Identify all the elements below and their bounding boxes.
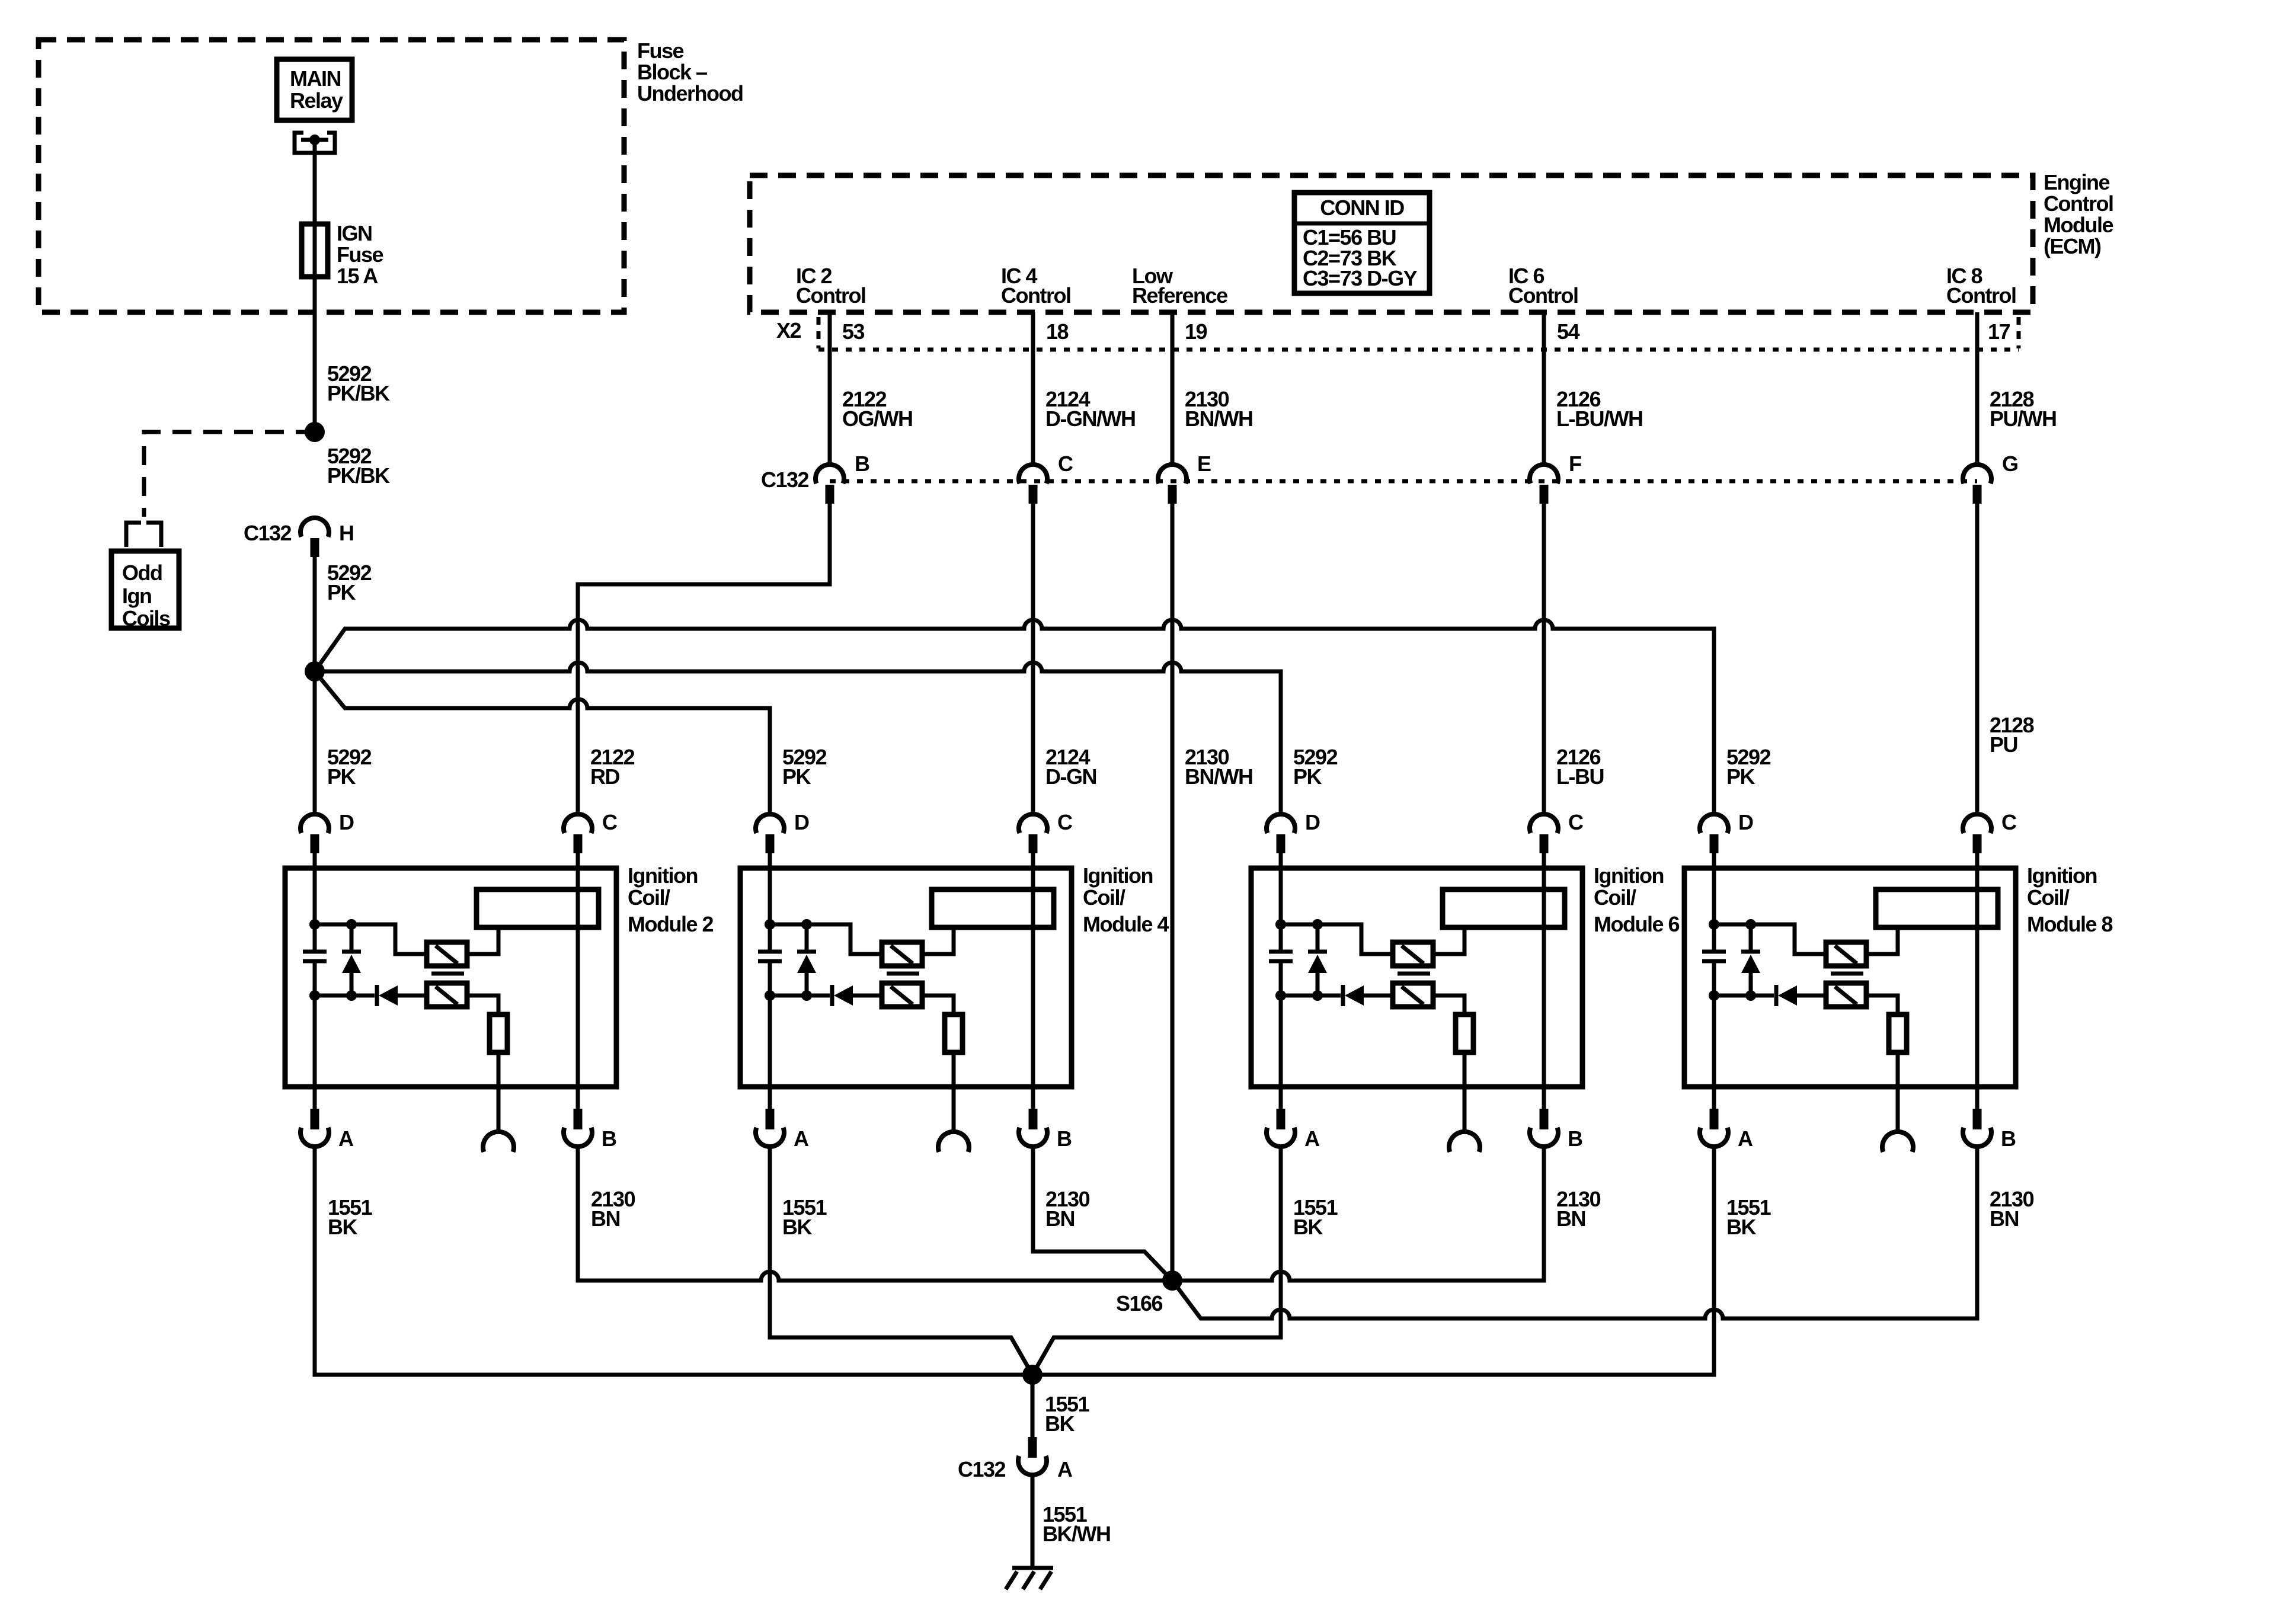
- wire 5292 PK bus to module 4 pin D (bottom branch): [315, 671, 770, 814]
- relay K MAIN Relay box: [277, 59, 352, 120]
- module 4 core: [887, 972, 919, 976]
- wire 5292 PK bus to module 6 pin D (middle branch): [315, 662, 1281, 814]
- wire 1551 BK/WH C132 A to ground: [1031, 1475, 1035, 1567]
- svg-text:Fuse: Fuse: [637, 39, 684, 63]
- connector C132 pin E: [1158, 452, 1211, 504]
- module 8 wire to primary winding: [1714, 924, 1826, 954]
- wire 5292 PK to module 2 pin D: [313, 671, 317, 814]
- module 4 primary winding: [882, 942, 922, 966]
- svg-text:Module 4: Module 4: [1083, 912, 1169, 936]
- module 4 diode: [770, 985, 882, 1006]
- svg-text:Module 8: Module 8: [2027, 912, 2112, 936]
- wire 1551 BK splice to C132 A: [1031, 1375, 1035, 1437]
- svg-text:Coil/: Coil/: [628, 885, 670, 910]
- svg-text:D: D: [794, 810, 809, 834]
- wire label 2130 BN (module 4 B): [1045, 1187, 1090, 1231]
- svg-text:Ignition: Ignition: [2027, 863, 2097, 888]
- module 6 primary winding: [1393, 942, 1433, 966]
- svg-text:BK: BK: [782, 1215, 812, 1239]
- wire C132 E low reference down to splice S166: [1171, 504, 1175, 1281]
- svg-text:C: C: [1568, 810, 1584, 834]
- ignition coil/module 6 label: [1594, 863, 1679, 936]
- svg-text:BN: BN: [1990, 1206, 2019, 1231]
- wire IC8 control (2128) ECM to C132 G: [1975, 312, 1980, 465]
- odd ign coils connector bracket: [126, 523, 161, 547]
- module 8 core: [1831, 972, 1863, 976]
- module 8 capacitor: [1702, 952, 1726, 961]
- connector C132 pin A: [958, 1437, 1073, 1481]
- module 8 internal wire pin D to pin A: [1712, 853, 1716, 950]
- module 6 secondary winding: [1393, 983, 1433, 1007]
- module 6 internal wire pin D to pin A: [1279, 853, 1283, 950]
- ground G107 symbol: [1006, 1568, 1053, 1589]
- wire C132 B to module 2 pin C (2122 RD, jog): [578, 504, 830, 814]
- wire label 1551 BK (module 2 A): [328, 1195, 373, 1239]
- module 6 wire winding to coil block: [1433, 927, 1464, 954]
- wire label 5292 PK/BK (below splice): [327, 444, 390, 488]
- module 8 internal wire pin C to pin B: [1975, 853, 1980, 1109]
- ECM label: [2044, 170, 2113, 258]
- svg-text:15 A: 15 A: [337, 264, 378, 288]
- svg-text:H: H: [339, 521, 354, 545]
- module 8 pin D connector: [1700, 810, 1753, 853]
- svg-text:C: C: [1058, 452, 1073, 476]
- wire label 2130 BN/WH: [1185, 387, 1252, 431]
- module 8 wire winding to coil block: [1866, 927, 1898, 954]
- svg-text:L-BU/WH: L-BU/WH: [1556, 406, 1642, 431]
- module 4 wire winding to resistor: [922, 996, 954, 1014]
- wire C132 F to module 6 pin C (2126 L-BU): [1542, 504, 1546, 814]
- wire C132 C to module 4 pin C (2124 D-GN): [1031, 504, 1035, 814]
- wire label 2122 OG/WH: [842, 387, 912, 431]
- svg-text:BK: BK: [328, 1215, 357, 1239]
- svg-text:OG/WH: OG/WH: [842, 406, 912, 431]
- wire 2130 BN module 4 B to S166: [1033, 1147, 1172, 1281]
- svg-text:Fuse: Fuse: [337, 242, 383, 267]
- svg-text:Odd: Odd: [122, 561, 162, 585]
- svg-text:PK: PK: [1726, 764, 1755, 789]
- ECM label Low Reference: [1132, 264, 1227, 308]
- svg-text:Control: Control: [2044, 191, 2113, 216]
- module 8 secondary winding: [1826, 983, 1866, 1007]
- module 6 resistor: [1456, 1014, 1473, 1052]
- ignition coil/module 4 label: [1083, 863, 1169, 936]
- svg-text:C132: C132: [958, 1457, 1006, 1481]
- svg-text:D: D: [1305, 810, 1320, 834]
- svg-text:BK: BK: [1293, 1215, 1323, 1239]
- ECM label IC 6 Control: [1508, 264, 1578, 308]
- X2 connector row of ECM: [776, 317, 2019, 350]
- module 2 node dots: [309, 919, 357, 1001]
- svg-text:18: 18: [1046, 319, 1069, 344]
- wire label 5292 PK (module 6 D): [1293, 745, 1338, 789]
- wire label 2130 BN (module 8 B): [1990, 1187, 2034, 1231]
- module 6 wire winding to resistor: [1433, 996, 1464, 1014]
- wire label 5292 PK (module 4 D): [782, 745, 827, 789]
- module 4 wire winding to coil block: [922, 927, 954, 954]
- module 2 resistor: [490, 1014, 507, 1052]
- module 8 pin C connector: [1963, 810, 2017, 853]
- splice node 5292 PK bus junction: [305, 661, 325, 681]
- svg-text:A: A: [1738, 1126, 1753, 1151]
- connector C132 pin G: [1963, 452, 2018, 504]
- svg-text:Block –: Block –: [637, 60, 707, 84]
- svg-text:CONN ID: CONN ID: [1320, 196, 1404, 220]
- splice node (5292 junction to odd ign coils): [305, 422, 325, 442]
- module 8 wire winding to resistor: [1866, 996, 1898, 1014]
- wire 1551 BK module 4 A to ground splice: [770, 1147, 1032, 1375]
- wire 1551 BK module 6 A to ground splice: [1032, 1147, 1281, 1375]
- fuse F IGN Fuse 15 A: [302, 224, 328, 277]
- svg-text:S166: S166: [1116, 1291, 1163, 1315]
- svg-text:D: D: [1738, 810, 1753, 834]
- module 2 pin D connector: [300, 810, 354, 853]
- module 6 coil block: [1443, 889, 1565, 927]
- module 2 wire winding to coil block: [467, 927, 498, 954]
- ECM label IC 4 Control: [1001, 264, 1070, 308]
- svg-text:BN: BN: [1556, 1206, 1585, 1231]
- connector C132 pin C: [1019, 452, 1073, 504]
- module 4 spark plug connector: [938, 1132, 969, 1152]
- svg-text:Module 6: Module 6: [1594, 912, 1679, 936]
- wire label 2128 PU (module 8 C): [1990, 713, 2034, 757]
- module 4 secondary winding: [882, 983, 922, 1007]
- wire C132 G to module 8 pin C (2128 PU): [1975, 504, 1980, 814]
- svg-text:Coil/: Coil/: [2027, 885, 2070, 910]
- wire label 2128 PU/WH: [1990, 387, 2057, 431]
- svg-text:PU/WH: PU/WH: [1990, 406, 2057, 431]
- module 2 spark plug connector: [483, 1132, 514, 1152]
- module 2 wire to primary winding: [315, 924, 427, 954]
- ignition coil/module 6: [1251, 868, 1582, 1087]
- module 2 spark plug output wire: [497, 1052, 501, 1132]
- svg-text:D: D: [339, 810, 354, 834]
- ignition coil/module 2: [285, 868, 616, 1087]
- wire label 2130 BN (module 6 B): [1556, 1187, 1601, 1231]
- module 8 zener diode: [1741, 924, 1760, 996]
- module 6 wire to primary winding: [1281, 924, 1393, 954]
- module 4 internal wire pin D to pin A: [768, 853, 772, 950]
- module 4 pin C connector: [1019, 810, 1073, 853]
- svg-text:54: 54: [1557, 319, 1580, 344]
- svg-text:Ignition: Ignition: [1083, 863, 1153, 888]
- wire label 1551 BK (to C132 A): [1045, 1392, 1090, 1436]
- module 4 node dots: [765, 919, 812, 1001]
- svg-text:F: F: [1569, 452, 1581, 476]
- module 6 spark plug connector: [1449, 1132, 1480, 1152]
- svg-text:B: B: [1057, 1126, 1072, 1151]
- wire label 5292 PK (below C132 H): [327, 561, 372, 604]
- svg-text:A: A: [794, 1126, 809, 1151]
- svg-text:53: 53: [842, 319, 865, 344]
- wire 2130 BN S166 to module 8 B: [1172, 1147, 1977, 1318]
- svg-text:C3=73 D-GY: C3=73 D-GY: [1303, 266, 1418, 290]
- svg-text:19: 19: [1185, 319, 1207, 344]
- svg-text:PK: PK: [782, 764, 811, 789]
- module 4 zener diode: [797, 924, 816, 996]
- svg-text:D-GN: D-GN: [1045, 764, 1096, 789]
- svg-text:Control: Control: [1508, 283, 1578, 308]
- svg-text:PK/BK: PK/BK: [327, 463, 390, 488]
- svg-text:BK: BK: [1045, 1411, 1075, 1436]
- module 4 pin D connector: [756, 810, 809, 853]
- ignition coil/module 8: [1684, 868, 2016, 1087]
- svg-text:BN/WH: BN/WH: [1185, 406, 1252, 431]
- svg-text:BN: BN: [1045, 1206, 1075, 1231]
- wire label 1551 BK (module 4 A): [782, 1195, 827, 1239]
- splice S166: [1116, 1270, 1182, 1315]
- svg-text:L-BU: L-BU: [1556, 764, 1604, 789]
- connector C132 pin F: [1530, 452, 1581, 504]
- module 6 diode: [1281, 985, 1393, 1006]
- svg-text:G: G: [2002, 452, 2018, 476]
- svg-text:D-GN/WH: D-GN/WH: [1045, 406, 1135, 431]
- svg-text:E: E: [1197, 452, 1211, 476]
- svg-text:Ignition: Ignition: [1594, 863, 1664, 888]
- module 8 resistor: [1889, 1014, 1907, 1052]
- svg-text:B: B: [1568, 1126, 1582, 1151]
- svg-text:Module 2: Module 2: [628, 912, 713, 936]
- svg-text:A: A: [338, 1126, 354, 1151]
- wire IC6 control (2126) ECM to C132 F: [1542, 312, 1546, 465]
- module 8 node dots: [1709, 919, 1756, 1001]
- svg-text:B: B: [602, 1126, 616, 1151]
- module 4 pin B connector: [1019, 1109, 1072, 1151]
- svg-text:PK: PK: [327, 764, 356, 789]
- fuse block label: [637, 39, 743, 105]
- svg-text:BN/WH: BN/WH: [1185, 764, 1252, 789]
- module 2 wire winding to resistor: [467, 996, 498, 1014]
- module 6 zener diode: [1308, 924, 1327, 996]
- module 2 primary winding: [427, 942, 467, 966]
- module 2 pin A connector: [300, 1109, 354, 1151]
- svg-text:(ECM): (ECM): [2044, 234, 2101, 258]
- module 2 diode: [315, 985, 427, 1006]
- CONN ID table: [1294, 193, 1430, 293]
- module 2 pin C connector: [564, 810, 618, 853]
- module 4 capacitor: [758, 952, 782, 961]
- wire 1551 BK ground bus module 2 A to module 8 A: [315, 1147, 1714, 1375]
- module 4 internal wire pin C to pin B: [1031, 853, 1035, 1109]
- module 8 pin B connector: [1963, 1109, 2016, 1151]
- ignition coil/module 2 label: [628, 863, 713, 936]
- ignition coil/module 4: [740, 868, 1072, 1087]
- wire label 5292 PK/BK (above splice): [327, 361, 390, 405]
- wire 2130 BN module 2 B to S166 to module 6 B: [578, 1147, 1544, 1281]
- module 2 coil block: [477, 889, 599, 927]
- ECM label IC 8 Control: [1946, 264, 2016, 308]
- svg-text:Reference: Reference: [1132, 283, 1227, 308]
- module 4 wire to primary winding: [770, 924, 882, 954]
- wire label 2130 BN (module 2 B): [591, 1187, 635, 1231]
- wire label 1551 BK (module 6 A): [1293, 1195, 1338, 1239]
- odd ign coils box: [111, 551, 179, 628]
- wire label 2122 RD (module 2 C): [590, 745, 635, 789]
- module 6 internal wire pin C to pin B: [1542, 853, 1546, 1109]
- wire label 2126 L-BU (module 6 C): [1556, 745, 1604, 789]
- engine control module ECM (dashed box): [750, 175, 2033, 312]
- module 6 core: [1398, 972, 1430, 976]
- svg-text:A: A: [1304, 1126, 1320, 1151]
- module 2 pin B connector: [564, 1109, 616, 1151]
- relay output terminal (fuse block cavity): [295, 133, 335, 153]
- wire label 2124 D-GN (module 4 C): [1045, 745, 1096, 789]
- connector C132 pin B: [816, 452, 869, 504]
- svg-text:MAIN: MAIN: [290, 66, 341, 91]
- wire label 5292 PK (module 2 D): [327, 745, 372, 789]
- svg-text:Ign: Ign: [122, 584, 151, 608]
- svg-text:PK: PK: [1293, 764, 1322, 789]
- module 4 resistor: [945, 1014, 962, 1052]
- svg-text:PK/BK: PK/BK: [327, 381, 390, 405]
- svg-text:A: A: [1057, 1457, 1073, 1481]
- svg-text:Engine: Engine: [2044, 170, 2109, 194]
- module 6 spark plug output wire: [1463, 1052, 1467, 1132]
- connector C132 row (dotted): [761, 468, 1977, 492]
- wire label 1551 BK/WH: [1043, 1502, 1110, 1546]
- svg-text:Coils: Coils: [122, 606, 170, 630]
- svg-text:BK/WH: BK/WH: [1043, 1522, 1110, 1546]
- module 6 capacitor: [1269, 952, 1293, 961]
- module 2 zener diode: [342, 924, 361, 996]
- module 2 secondary winding: [427, 983, 467, 1007]
- module 2 core: [431, 972, 464, 976]
- module 8 primary winding: [1826, 942, 1866, 966]
- svg-text:Coil/: Coil/: [1594, 885, 1636, 910]
- svg-text:PU: PU: [1990, 732, 2017, 757]
- wire label 2124 D-GN/WH: [1045, 387, 1135, 431]
- svg-text:C: C: [1057, 810, 1073, 834]
- wire: C132 H to bus junction: [313, 557, 317, 671]
- module 6 node dots: [1275, 919, 1323, 1001]
- wire 5292 PK bus to module 8 pin D (top branch): [315, 620, 1714, 814]
- connector C132 pin H: [244, 518, 354, 557]
- svg-text:Module: Module: [2044, 213, 2113, 237]
- module 6 pin C connector: [1530, 810, 1584, 853]
- svg-text:PK: PK: [327, 580, 356, 604]
- svg-text:Coil/: Coil/: [1083, 885, 1125, 910]
- wire low reference (2130) ECM to C132 E: [1171, 312, 1175, 465]
- svg-text:RD: RD: [590, 764, 619, 789]
- svg-text:C: C: [2001, 810, 2017, 834]
- module 8 spark plug output wire: [1896, 1052, 1900, 1132]
- module 6 pin B connector: [1530, 1109, 1582, 1151]
- fuse block - underhood (dashed box): [39, 40, 624, 312]
- svg-text:C: C: [602, 810, 618, 834]
- module 4 pin A connector: [756, 1109, 809, 1151]
- wire: relay terminal down through IGN fuse to splice: [313, 140, 317, 432]
- ignition coil/module 8 label: [2027, 863, 2112, 936]
- module 8 spark plug connector: [1882, 1132, 1913, 1152]
- module 6 pin D connector: [1267, 810, 1320, 853]
- module 4 spark plug output wire: [952, 1052, 956, 1132]
- ECM label IC 2 Control: [796, 264, 865, 308]
- svg-text:C132: C132: [244, 521, 292, 545]
- module 8 pin A connector: [1700, 1109, 1753, 1151]
- svg-text:Control: Control: [1001, 283, 1070, 308]
- dashed wire to odd ign coils: [144, 432, 315, 517]
- svg-text:17: 17: [1988, 319, 2010, 344]
- module 6 pin A connector: [1267, 1109, 1320, 1151]
- module 2 internal wire pin C to pin B: [576, 853, 580, 1109]
- svg-text:BK: BK: [1726, 1215, 1756, 1239]
- svg-text:IGN: IGN: [337, 221, 372, 245]
- svg-text:C132: C132: [761, 468, 809, 492]
- module 2 internal wire pin D to pin A: [313, 853, 317, 950]
- wire IC4 control (2124) ECM to C132 C: [1031, 312, 1035, 465]
- svg-text:X2: X2: [776, 318, 801, 343]
- wire IC2 control (2122) ECM to C132 B: [828, 312, 832, 465]
- ground splice node: [1022, 1365, 1043, 1385]
- wire label 5292 PK (module 8 D): [1726, 745, 1771, 789]
- svg-text:B: B: [2001, 1126, 2016, 1151]
- svg-text:Relay: Relay: [290, 88, 343, 113]
- module 2 capacitor: [303, 952, 327, 961]
- wire label 2130 BN/WH (low reference): [1185, 745, 1252, 789]
- svg-text:Control: Control: [796, 283, 865, 308]
- svg-text:Control: Control: [1946, 283, 2016, 308]
- wire label 2126 L-BU/WH: [1556, 387, 1642, 431]
- svg-text:B: B: [855, 452, 869, 476]
- svg-text:Ignition: Ignition: [628, 863, 698, 888]
- svg-text:BN: BN: [591, 1206, 620, 1231]
- module 8 diode: [1714, 985, 1826, 1006]
- svg-text:Underhood: Underhood: [637, 81, 743, 105]
- wire label 1551 BK (module 8 A): [1726, 1195, 1771, 1239]
- module 8 coil block: [1876, 889, 1998, 927]
- module 4 coil block: [932, 889, 1054, 927]
